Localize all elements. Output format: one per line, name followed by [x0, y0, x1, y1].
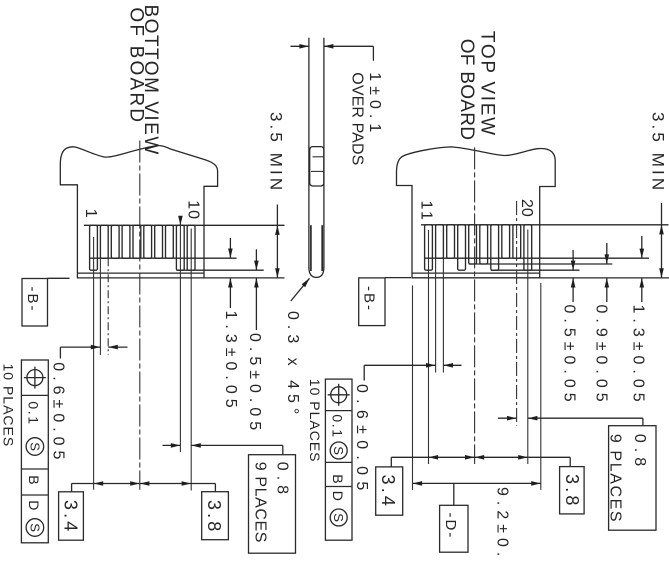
dim 0.6±0.05 leader and arrows [59, 347, 61, 358]
svg-text:20: 20 [518, 199, 535, 217]
svg-text:OF BOARD: OF BOARD [126, 7, 147, 124]
pad 20 (long) [524, 225, 532, 270]
dim 3.5 MIN vertical line left view [276, 205, 278, 278]
svg-text:0.1: 0.1 [329, 414, 345, 438]
base bottom line extended right [412, 277, 669, 279]
right connector bottom edge line [412, 272, 540, 274]
side view board edge right line [323, 38, 325, 268]
base bottom line extended right [204, 277, 285, 279]
pad 7 [155, 225, 163, 258]
chamfer leader 0.3 x 45 [291, 278, 310, 301]
svg-text:OVER PADS: OVER PADS [349, 72, 366, 165]
side view pads overlay lines [310, 225, 312, 271]
long pad bottom line [491, 269, 580, 271]
svg-text:S: S [331, 513, 346, 522]
dim 0.9±0.05 arrows [606, 243, 608, 264]
box 0.8 9 PLACES (right) [609, 426, 656, 531]
svg-text:D: D [26, 500, 42, 512]
pad1 center extension line [93, 237, 95, 490]
datum -D- box [440, 505, 468, 552]
box 3.8 (left) [202, 492, 229, 540]
svg-text:0.8: 0.8 [273, 462, 290, 499]
pad 18 [502, 225, 510, 258]
dim 1.3±0.05 arrows (right) [641, 236, 643, 258]
dim 1.3±0.05 arrows (right of left view) [229, 238, 231, 258]
svg-text:3.5 MIN: 3.5 MIN [648, 112, 667, 193]
svg-text:3.8: 3.8 [204, 500, 224, 535]
dim 9.2±0.1 line [413, 482, 541, 484]
datum -B- box (left) [22, 279, 48, 327]
svg-text:S: S [331, 446, 346, 455]
svg-text:9 PLACES: 9 PLACES [606, 434, 623, 523]
pad 19 [513, 225, 521, 258]
position symbol [27, 370, 43, 386]
svg-text:9.2±0.: 9.2±0. [493, 487, 510, 561]
pad 17 (long) [491, 225, 499, 270]
svg-text:1±0.1: 1±0.1 [366, 72, 383, 137]
svg-text:3.4: 3.4 [60, 500, 80, 535]
pad10 center extension line [190, 229, 192, 491]
svg-text:B: B [26, 475, 42, 486]
side view rounded tip [309, 267, 324, 277]
svg-text:0.5±0.05: 0.5±0.05 [560, 305, 577, 407]
centerline right view [474, 147, 476, 464]
dim 0.8 9 PLACES (left view) [163, 444, 181, 446]
9.2 extension lines [412, 286, 414, 490]
pad 4 [122, 225, 130, 258]
datum -B- leader (right) [385, 277, 411, 279]
side view connector block [310, 147, 324, 186]
left connector body outline [60, 145, 217, 277]
side view board edge left line [308, 38, 310, 268]
dim line 3.4 / 3.8 (right view) [391, 456, 570, 458]
svg-text:3.4: 3.4 [378, 475, 398, 510]
svg-text:B: B [330, 474, 346, 485]
svg-text:1: 1 [82, 209, 99, 223]
pad11 center extension line [428, 230, 430, 464]
feature control frame (left) [21, 360, 48, 543]
svg-text:1.3±0.05: 1.3±0.05 [629, 305, 646, 407]
pad top line extended right [421, 224, 669, 226]
datum -D- leader [453, 483, 455, 505]
svg-text:0.8: 0.8 [631, 434, 648, 471]
svg-text:D: D [330, 491, 346, 503]
dim 3.5 MIN vertical (right) [661, 203, 663, 278]
svg-text:OF BOARD: OF BOARD [456, 39, 477, 141]
pad9 center extension line with down arrow [179, 221, 181, 453]
right connector body outline [397, 147, 556, 278]
svg-text:0.9±0.05: 0.9±0.05 [593, 305, 610, 407]
position symbol (right) [331, 387, 347, 403]
pad 13 [447, 225, 455, 258]
svg-text:3.5 MIN: 3.5 MIN [267, 112, 286, 193]
svg-text:9 PLACES: 9 PLACES [251, 462, 268, 543]
pad 14 (long) [458, 225, 466, 270]
svg-text:0.1: 0.1 [26, 401, 42, 425]
dim 0.5±0.05 arrows (right) [572, 250, 574, 270]
long pad bottom line extended right [176, 269, 263, 271]
pad 11 (long) [425, 225, 433, 270]
svg-text:0.3 x 45°: 0.3 x 45° [284, 311, 301, 419]
pad 3 [111, 225, 119, 258]
left connector bottom edge line [77, 272, 204, 274]
short pad bottom line extended right [90, 257, 237, 259]
svg-text:TOP VIEW: TOP VIEW [476, 31, 497, 137]
pad 9 (long) [176, 225, 184, 270]
pad 15 (medium) [469, 225, 477, 264]
pad 10 (long) [187, 225, 195, 270]
svg-text:10 PLACES: 10 PLACES [1, 364, 17, 448]
svg-text:-B-: -B- [24, 287, 41, 313]
svg-text:0.6±0.05: 0.6±0.05 [353, 384, 370, 497]
short pad bottom line [425, 257, 649, 259]
svg-text:10: 10 [185, 200, 202, 220]
0.6 extension lines (pad12 edges) [435, 258, 437, 372]
svg-text:-D-: -D- [442, 513, 459, 540]
svg-text:S: S [27, 523, 42, 532]
dim 0.5±0.05 arrows [255, 249, 257, 270]
box 3.4 (right) [376, 467, 403, 515]
pad top edge line extended right [84, 224, 285, 226]
dim 1±0.1 OVER PADS [291, 45, 310, 47]
box 3.8 (right) [560, 467, 585, 514]
centerline left view [139, 141, 141, 490]
pad20 center extension line [527, 230, 529, 465]
0.6 extension lines (pad2 edges) [99, 258, 101, 355]
dim 0.8 9 PLACES (right) [498, 417, 517, 419]
svg-text:0.6±0.05: 0.6±0.05 [50, 362, 67, 464]
svg-text:S: S [27, 442, 42, 451]
pad 12 [436, 225, 444, 258]
datum -B- box (right) [359, 278, 385, 326]
svg-text:10 PLACES: 10 PLACES [307, 379, 323, 463]
box 0.8 9 PLACES (left) [249, 455, 296, 554]
svg-text:3.8: 3.8 [562, 474, 582, 509]
pad 1 (long) [90, 225, 98, 270]
feature control frame (right) [325, 379, 352, 540]
svg-text:1.3±0.05: 1.3±0.05 [222, 311, 239, 413]
dim 0.6±0.05 (right) leader and arrows [363, 365, 365, 380]
svg-text:-B-: -B- [361, 286, 378, 312]
pad 5 [133, 225, 141, 258]
pad19 center extension line [516, 201, 518, 426]
pad 2 [100, 225, 108, 258]
dim line 3.4 / 3.8 (left view) [72, 483, 216, 485]
medium pad bottom line [469, 263, 613, 265]
pad 16 (medium) [480, 225, 488, 264]
svg-text:11: 11 [418, 201, 435, 223]
pad 6 [144, 225, 152, 258]
box 3.4 (left) [59, 492, 84, 540]
svg-text:0.5±0.05: 0.5±0.05 [246, 333, 263, 435]
pad 8 [166, 225, 174, 258]
datum -B- leader line (left) [48, 277, 70, 279]
